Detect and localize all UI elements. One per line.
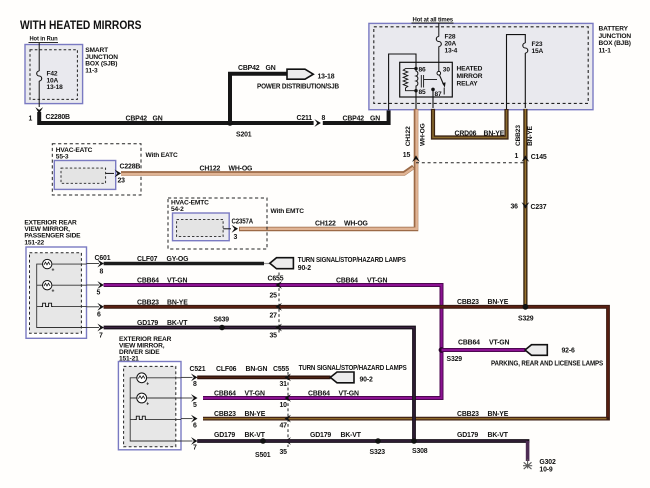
svg-text:GY-OG: GY-OG: [167, 256, 189, 263]
svg-text:151-22: 151-22: [24, 239, 44, 246]
svg-text:7: 7: [99, 333, 103, 340]
svg-text:POWER DISTRIBUTION/SJB: POWER DISTRIBUTION/SJB: [257, 84, 339, 91]
wire CBP42 inside BJB to relay coil: [389, 54, 416, 110]
svg-text:92-6: 92-6: [562, 347, 576, 354]
svg-text:30: 30: [443, 67, 451, 74]
svg-text:S308: S308: [412, 448, 428, 455]
svg-text:15: 15: [403, 152, 411, 159]
svg-text:BN-YE: BN-YE: [484, 131, 505, 138]
svg-text:+: +: [52, 289, 55, 295]
svg-text:5: 5: [97, 290, 101, 297]
svg-text:GN: GN: [266, 65, 276, 72]
svg-text:S329: S329: [447, 356, 463, 363]
svg-text:TURN SIGNAL/STOP/HAZARD LAMPS: TURN SIGNAL/STOP/HAZARD LAMPS: [298, 257, 406, 264]
offpage arrow PARKING REAR AND LICENSE LAMPS 92-6: [491, 345, 603, 368]
svg-text:+: +: [146, 402, 149, 408]
svg-text:GN: GN: [370, 115, 380, 122]
HVAC-EMTC box: [171, 200, 229, 241]
svg-text:HEATED: HEATED: [457, 65, 483, 72]
driver mirror motor 1: [137, 373, 181, 387]
svg-text:CRD06: CRD06: [455, 131, 477, 138]
svg-text:CH122: CH122: [405, 126, 412, 146]
svg-text:GD179: GD179: [137, 320, 158, 327]
ground G302: [523, 459, 556, 473]
label EXTERIOR REAR VIEW MIRROR DRIVER SIDE 151-21: [119, 336, 172, 363]
offpage arrow TURN SIGNAL STOP HAZARD LAMPS 90-2 driver: [299, 365, 407, 384]
svg-text:C555: C555: [273, 366, 289, 373]
driver mirror motor 2: [137, 393, 181, 407]
svg-text:CBB23: CBB23: [515, 125, 522, 146]
fuse F42: [37, 71, 63, 92]
driver mirror heater element: [135, 416, 182, 419]
svg-text:CLF06: CLF06: [216, 366, 237, 373]
wire GD179 BK-VT driver to ground: [197, 432, 529, 461]
node S201: [227, 120, 252, 138]
svg-text:CBB64: CBB64: [137, 278, 159, 285]
relay pin 86: [414, 67, 426, 74]
svg-text:VT-GN: VT-GN: [245, 391, 265, 398]
svg-text:13-18: 13-18: [318, 73, 335, 80]
svg-text:CBB64: CBB64: [336, 278, 358, 285]
label CBB64 VT-GN driver: [214, 391, 359, 398]
svg-text:With EATC: With EATC: [146, 152, 179, 159]
svg-text:BK-VT: BK-VT: [341, 432, 362, 439]
svg-text:13-4: 13-4: [445, 47, 458, 54]
svg-text:VT-GN: VT-GN: [339, 391, 359, 398]
svg-text:11-1: 11-1: [599, 47, 612, 54]
label CH122 WH-OG on EMTC wire: [315, 221, 368, 228]
svg-text:1: 1: [29, 116, 33, 123]
wire CBB64 VT-GN branch to parking lamps: [442, 340, 526, 350]
svg-text:23: 23: [118, 178, 126, 185]
svg-text:C211: C211: [297, 115, 313, 122]
relay armature core: [421, 75, 437, 88]
wire CBB23 BN-YE passenger loop: [104, 299, 608, 419]
svg-text:CBB64: CBB64: [214, 391, 236, 398]
fuse F23: [523, 41, 544, 108]
svg-text:10-9: 10-9: [539, 466, 553, 473]
connector C211 pin 8: [297, 115, 381, 127]
svg-text:WH-OG: WH-OG: [344, 221, 368, 228]
svg-text:85: 85: [419, 89, 427, 96]
svg-text:8: 8: [322, 115, 326, 122]
node S329 on CBB64: [439, 347, 463, 363]
svg-text:VT-GN: VT-GN: [489, 340, 509, 347]
svg-text:54-2: 54-2: [171, 206, 184, 213]
svg-text:7: 7: [193, 444, 197, 451]
node S323: [370, 438, 386, 456]
svg-text:8: 8: [193, 381, 197, 388]
svg-text:GD179: GD179: [310, 432, 331, 439]
wire relay pin 85 lead: [415, 91, 417, 109]
relay pin 85: [414, 89, 426, 96]
svg-text:WH-OG: WH-OG: [419, 123, 426, 146]
svg-text:+: +: [146, 381, 149, 387]
relay pin 30 contact: [437, 67, 450, 75]
svg-text:PARKING, REAR AND LICENSE LAMP: PARKING, REAR AND LICENSE LAMPS: [491, 360, 603, 367]
svg-text:8: 8: [100, 269, 104, 276]
svg-text:RELAY: RELAY: [457, 80, 479, 87]
svg-text:CBB23: CBB23: [457, 299, 479, 306]
svg-text:CBP42: CBP42: [238, 65, 260, 72]
passenger mirror heater element: [41, 303, 87, 306]
svg-text:C521: C521: [190, 366, 206, 373]
label CBB23 BN-YE driver: [214, 411, 266, 418]
svg-text:C145: C145: [531, 154, 547, 161]
svg-text:VT-GN: VT-GN: [167, 278, 187, 285]
node S501: [255, 438, 271, 459]
With EATC dashed boundary: [52, 144, 178, 195]
connector C228B pin 23: [106, 163, 141, 184]
connector C2357A pin 3: [223, 218, 253, 241]
svg-text:WH-OG: WH-OG: [229, 166, 253, 173]
svg-text:CBB23: CBB23: [457, 411, 479, 418]
driver mirror box: [118, 362, 181, 450]
svg-text:36: 36: [511, 204, 519, 211]
label SMART JUNCTION BOX (SJB) 11-3: [85, 47, 118, 74]
connector C601 pins 8 5 6 7: [87, 255, 111, 340]
svg-text:90-2: 90-2: [298, 265, 312, 272]
svg-text:CBB64: CBB64: [308, 391, 330, 398]
svg-text:27: 27: [270, 313, 278, 320]
svg-text:BATTERY: BATTERY: [599, 26, 629, 33]
wire CLF06 BN-GN: [197, 366, 330, 377]
svg-text:13-18: 13-18: [47, 84, 64, 91]
svg-text:11-3: 11-3: [85, 67, 98, 74]
connector C145 pin 1: [515, 153, 547, 162]
svg-text:C2357A: C2357A: [232, 218, 254, 225]
driver mirror internal bus: [130, 378, 181, 441]
connector C2280B pin 1: [29, 107, 71, 122]
svg-text:S639: S639: [214, 316, 230, 323]
svg-text:+: +: [52, 268, 55, 274]
svg-text:GN: GN: [153, 115, 163, 122]
wire CH122 WH-OG vertical from relay 85: [239, 109, 426, 229]
svg-text:15A: 15A: [532, 48, 544, 55]
svg-text:BN-GN: BN-GN: [246, 366, 268, 373]
relay switch arm: [439, 75, 445, 95]
svg-text:C228B: C228B: [120, 163, 141, 170]
svg-text:CBB64: CBB64: [458, 340, 480, 347]
connector C655: [268, 273, 284, 340]
connector C145 pin 15: [403, 152, 420, 162]
svg-text:CLF07: CLF07: [137, 256, 158, 263]
svg-text:Hot at all times: Hot at all times: [413, 16, 454, 23]
connector C145 dashed joint line: [416, 162, 525, 164]
svg-text:1: 1: [515, 153, 519, 160]
svg-text:86: 86: [419, 67, 427, 74]
smart junction box SJB: [25, 45, 83, 104]
HVAC-EATC box: [54, 147, 115, 190]
svg-text:MIRROR: MIRROR: [457, 73, 483, 80]
wire CBB23 BN-YE from F23 down to S329: [515, 109, 534, 307]
svg-text:CH122: CH122: [315, 221, 336, 228]
svg-text:GD179: GD179: [214, 432, 235, 439]
connector C555: [273, 366, 291, 456]
wire F28 leads: [438, 23, 440, 72]
svg-text:CBP42: CBP42: [343, 115, 365, 122]
wire GD179 BK-VT passenger: [104, 320, 414, 441]
svg-text:C601: C601: [95, 255, 111, 262]
svg-text:BN-YE: BN-YE: [167, 299, 188, 306]
svg-text:VT-GN: VT-GN: [367, 278, 387, 285]
label BATTERY JUNCTION BOX (BJB) 11-1: [599, 26, 632, 55]
svg-text:S323: S323: [370, 449, 386, 456]
svg-text:G302: G302: [539, 459, 556, 466]
connector C521 pins 8 5 6 7: [181, 366, 206, 451]
svg-text:CBB23: CBB23: [214, 411, 236, 418]
wire CBB64 VT-GN passenger: [104, 278, 442, 398]
passenger mirror motor 1: [43, 259, 87, 273]
svg-text:BK-VT: BK-VT: [167, 320, 188, 327]
svg-text:87: 87: [435, 91, 443, 98]
svg-text:BK-VT: BK-VT: [245, 432, 266, 439]
connector C237 pin 36: [511, 202, 547, 211]
fuse F28: [436, 34, 457, 55]
svg-text:25: 25: [270, 293, 278, 300]
svg-text:BN-YE: BN-YE: [245, 411, 266, 418]
svg-text:10: 10: [280, 402, 288, 409]
svg-text:BN-YE: BN-YE: [488, 411, 509, 418]
svg-text:C237: C237: [531, 204, 547, 211]
relay box heated mirror relay: [400, 62, 483, 97]
wire CBP42 GN branch to power distribution: [230, 65, 288, 123]
svg-text:6: 6: [97, 312, 101, 319]
svg-text:F23: F23: [532, 41, 543, 48]
svg-text:31: 31: [280, 381, 288, 388]
svg-text:C2280B: C2280B: [46, 114, 71, 121]
wire CRD06 BN-YE relay 87 to F23: [433, 109, 507, 138]
svg-text:35: 35: [270, 333, 278, 340]
offpage arrow POWER DISTRIBUTION/SJB 13-18: [257, 69, 339, 90]
svg-text:CH122: CH122: [200, 166, 221, 173]
svg-text:BK-VT: BK-VT: [488, 432, 509, 439]
With EMTC dashed boundary: [168, 198, 304, 249]
svg-text:CBB23: CBB23: [137, 299, 159, 306]
battery junction box BJB: [369, 23, 593, 109]
svg-text:WITH HEATED MIRRORS: WITH HEATED MIRRORS: [20, 18, 142, 32]
svg-text:BN-YE: BN-YE: [527, 125, 534, 146]
passenger mirror internal bus: [37, 264, 87, 327]
wire fuse F42 leads: [38, 43, 40, 107]
node S639: [214, 316, 230, 330]
node S329 on CBB23: [518, 304, 534, 323]
svg-text:S329: S329: [518, 316, 534, 323]
label EXTERIOR REAR VIEW MIRROR PASSENGER SIDE 151-22: [24, 220, 81, 247]
svg-text:35: 35: [280, 449, 288, 456]
svg-text:CBP42: CBP42: [126, 115, 148, 122]
svg-text:6: 6: [193, 422, 197, 429]
svg-text:47: 47: [280, 422, 288, 429]
svg-text:TURN SIGNAL/STOP/HAZARD LAMPS: TURN SIGNAL/STOP/HAZARD LAMPS: [299, 365, 407, 372]
offpage arrow TURN SIGNAL STOP HAZARD LAMPS 90-2 passenger: [270, 257, 406, 272]
svg-text:GD179: GD179: [457, 432, 478, 439]
svg-text:With EMTC: With EMTC: [271, 208, 305, 215]
wire CBP42 GN main run: [39, 109, 388, 123]
svg-text:3: 3: [234, 234, 238, 241]
relay coil resistor branch: [403, 69, 416, 91]
svg-text:S201: S201: [236, 132, 252, 139]
node S308: [411, 438, 428, 455]
passenger mirror box: [26, 247, 87, 338]
svg-text:BN-YE: BN-YE: [488, 299, 509, 306]
label Hot at all times: [412, 16, 454, 23]
relay coil inductor: [416, 69, 418, 91]
svg-text:BOX (BJB): BOX (BJB): [599, 40, 631, 47]
wire F23 feed inside BJB: [507, 35, 526, 109]
passenger mirror motor 2: [43, 281, 87, 295]
svg-text:90-2: 90-2: [360, 377, 374, 384]
wire CLF07 GY-OG: [104, 256, 271, 264]
wire CH122 WH-OG from EATC: [121, 166, 414, 174]
svg-text:Hot in Run: Hot in Run: [30, 36, 58, 43]
relay pin 87: [431, 88, 442, 108]
svg-text:55-3: 55-3: [56, 154, 69, 161]
svg-text:5: 5: [193, 402, 197, 409]
label Hot in Run: [29, 36, 59, 43]
svg-text:JUNCTION: JUNCTION: [599, 33, 632, 40]
svg-text:S501: S501: [255, 452, 271, 459]
